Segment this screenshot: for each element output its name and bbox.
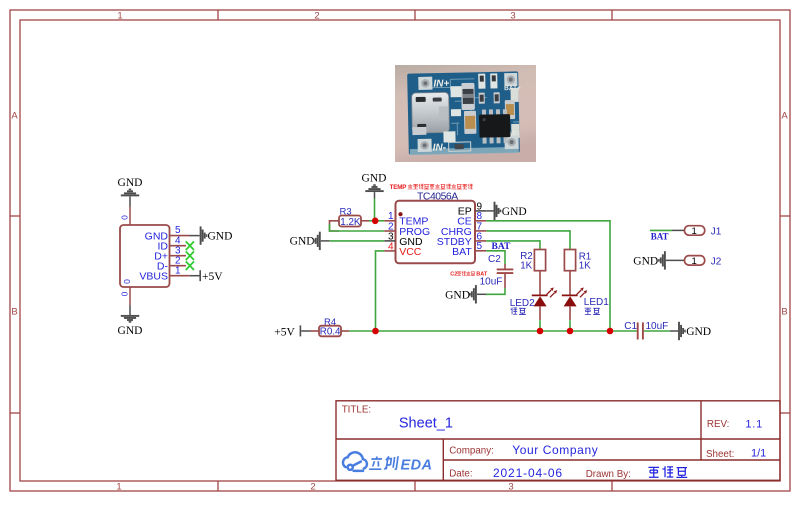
junction (VCC/rail)	[372, 328, 379, 335]
resistor R4	[319, 317, 341, 337]
wire (R3 right to TEMP pin1)	[361, 220, 369, 222]
svg-text:IN-: IN-	[433, 142, 447, 153]
+5V power flag (left)	[274, 325, 310, 338]
svg-text:2: 2	[314, 11, 319, 22]
svg-text:C2: C2	[488, 254, 501, 265]
svg-text:TITLE:: TITLE:	[342, 405, 371, 416]
ground (top of USB)	[118, 177, 143, 206]
wire (C1 to GND)	[644, 330, 670, 332]
svg-text:+5V: +5V	[202, 271, 223, 283]
LED1	[562, 271, 587, 321]
ground (bottom of USB)	[118, 305, 143, 337]
+5V power flag (VBUS)	[190, 270, 224, 283]
svg-text:BAT: BAT	[651, 232, 669, 242]
svg-text:A: A	[11, 111, 18, 122]
LED1 labels	[584, 297, 609, 315]
svg-text:C2: C2	[450, 272, 457, 278]
svg-text:VBUS: VBUS	[139, 271, 168, 283]
8-pin IC	[482, 109, 508, 144]
svg-text:IN+: IN+	[433, 78, 449, 89]
junction (LED1/rail)	[567, 328, 574, 335]
svg-text:0: 0	[120, 215, 130, 220]
svg-text:VCC: VCC	[399, 246, 422, 258]
wire (STDBY pin6 to R2 top)	[486, 241, 540, 250]
pin 2 D- (no connect)	[157, 255, 194, 272]
svg-text:3: 3	[510, 11, 515, 22]
svg-text:1: 1	[116, 482, 121, 493]
svg-text:R0.4: R0.4	[320, 326, 341, 337]
pin 1 VBUS	[139, 265, 189, 282]
svg-text:GND: GND	[362, 172, 387, 184]
wire (LED2 to rail)	[539, 320, 541, 331]
USB connector body	[120, 225, 170, 287]
wire (R3 left to PROG pin2)	[330, 221, 340, 231]
capacitor C2	[480, 254, 514, 288]
small pads top middle	[478, 74, 485, 89]
ground (USB pin5)	[190, 226, 233, 244]
svg-text:Company:: Company:	[449, 446, 494, 457]
svg-text:1: 1	[117, 11, 122, 22]
svg-text:1: 1	[175, 265, 181, 276]
LED2 labels	[510, 298, 535, 315]
drawn-by name glyphs	[648, 466, 687, 477]
svg-text:REV:: REV:	[707, 419, 730, 430]
connector J1	[672, 226, 722, 238]
svg-text:J1: J1	[711, 226, 722, 237]
connector J2	[666, 256, 722, 268]
svg-text:1K: 1K	[520, 261, 532, 272]
blue PCB	[407, 71, 520, 154]
svg-text:1.2K: 1.2K	[340, 217, 361, 228]
junction (TEMP node)	[372, 218, 379, 225]
wire (C2 bottom to GND)	[486, 288, 505, 294]
LED2	[532, 271, 557, 321]
photo of TP4056 charger module	[395, 65, 536, 162]
svg-text:0: 0	[122, 279, 132, 284]
EasyEDA logo	[343, 452, 367, 471]
svg-text:1.1: 1.1	[745, 418, 763, 430]
pin 7 CHRG	[441, 221, 486, 238]
ground (IC pin9 EP)	[486, 202, 526, 220]
svg-text:J2: J2	[711, 256, 722, 267]
ground (IC pin3 GND)	[290, 232, 330, 250]
wire (LED1 to rail)	[569, 320, 571, 331]
svg-text:GND: GND	[445, 289, 470, 301]
svg-text:A: A	[781, 111, 788, 122]
IC TC4056A body	[396, 201, 476, 264]
svg-text:GND: GND	[502, 206, 527, 218]
micro USB connector	[412, 92, 450, 133]
pin 9 EP	[458, 201, 487, 217]
wire (GND to USB top pin)	[129, 207, 131, 226]
svg-text:C1: C1	[624, 321, 637, 332]
svg-text:1K: 1K	[579, 261, 591, 272]
svg-text:10uF: 10uF	[480, 276, 503, 287]
svg-text:+5V: +5V	[274, 326, 295, 338]
red note text (C2 close to BAT)	[450, 271, 488, 277]
svg-text:GND: GND	[290, 236, 315, 248]
white silkscreen boxes	[450, 86, 461, 97]
svg-text:GND: GND	[118, 177, 143, 189]
pin 1 TEMP	[384, 211, 428, 227]
svg-text:0: 0	[120, 291, 130, 296]
svg-text:2021-04-06: 2021-04-06	[493, 466, 563, 480]
svg-text:4: 4	[388, 241, 394, 252]
svg-text:GND: GND	[686, 326, 711, 338]
svg-text:1/1: 1/1	[751, 448, 766, 460]
capacitor C1	[624, 321, 668, 340]
svg-text:1: 1	[692, 226, 697, 237]
resistor R1	[564, 250, 591, 272]
tan capacitors	[464, 111, 476, 134]
wire (VCC pin4 down to +5V rail)	[376, 251, 385, 331]
pin 3 D+ (no connect)	[154, 245, 194, 262]
svg-text:BAT: BAT	[476, 272, 488, 278]
svg-text:LED2: LED2	[510, 298, 535, 309]
pin 4 ID (no connect)	[158, 235, 195, 252]
svg-text:TEMP: TEMP	[390, 184, 407, 191]
resistor R2	[520, 250, 545, 272]
ground (J2)	[633, 251, 666, 269]
corner pads + holes	[418, 77, 432, 90]
svg-text:Date:: Date:	[449, 468, 472, 479]
svg-text:Your Company: Your Company	[512, 443, 598, 457]
wire (USB bottom pin to GND)	[129, 287, 131, 305]
wire (BAT to J1)	[650, 229, 672, 231]
svg-text:1: 1	[692, 256, 697, 267]
pin 6 STDBY	[437, 231, 487, 248]
pin 5 BAT	[452, 241, 486, 258]
pin 5 GND	[145, 225, 190, 242]
svg-text:B: B	[781, 307, 787, 318]
svg-text:3: 3	[508, 482, 513, 493]
ground (C2)	[445, 285, 486, 303]
dark resistor component	[461, 83, 475, 110]
svg-text:GND: GND	[208, 231, 233, 243]
red note text TEMP pin	[390, 184, 473, 191]
svg-text:Sheet:: Sheet:	[706, 449, 734, 460]
pin 4 VCC	[384, 241, 422, 258]
junction (CE/rail)	[607, 328, 614, 335]
svg-text:EDA: EDA	[401, 458, 433, 474]
wire (GND down to junction)	[374, 199, 376, 221]
svg-text:GND: GND	[633, 256, 658, 268]
wire (CE pin8 right and down to rail)	[486, 221, 610, 331]
resistor R3	[339, 206, 361, 227]
ground (C1)	[670, 322, 711, 340]
ground (above IC)	[362, 172, 387, 198]
pin 8 CE	[457, 211, 486, 227]
pin 1 indicator dot	[398, 212, 402, 216]
wire (+5V to R4)	[311, 330, 320, 332]
svg-text:Drawn By:: Drawn By:	[586, 469, 631, 480]
pin 2 PROG	[384, 221, 430, 237]
svg-text:Sheet_1: Sheet_1	[399, 415, 453, 431]
wire (GND to pin3)	[330, 240, 385, 242]
svg-text:2: 2	[310, 482, 315, 493]
junction (LED2/rail)	[537, 328, 544, 335]
svg-text:LED1: LED1	[584, 297, 609, 308]
svg-text:B: B	[11, 307, 17, 318]
wire (R4 to C1 rail)	[341, 330, 349, 332]
pin 3 GND	[384, 231, 423, 248]
svg-text:5: 5	[477, 241, 483, 252]
svg-text:BAT: BAT	[492, 242, 511, 252]
wire (CHRG pin7 to R1 top)	[486, 231, 570, 250]
svg-text:GND: GND	[118, 325, 143, 337]
svg-text:BAT+: BAT+	[504, 85, 521, 92]
svg-text:BAT: BAT	[452, 246, 472, 258]
wire (BAT pin5 to C2)	[486, 251, 505, 264]
li chuang glyphs	[369, 457, 383, 470]
